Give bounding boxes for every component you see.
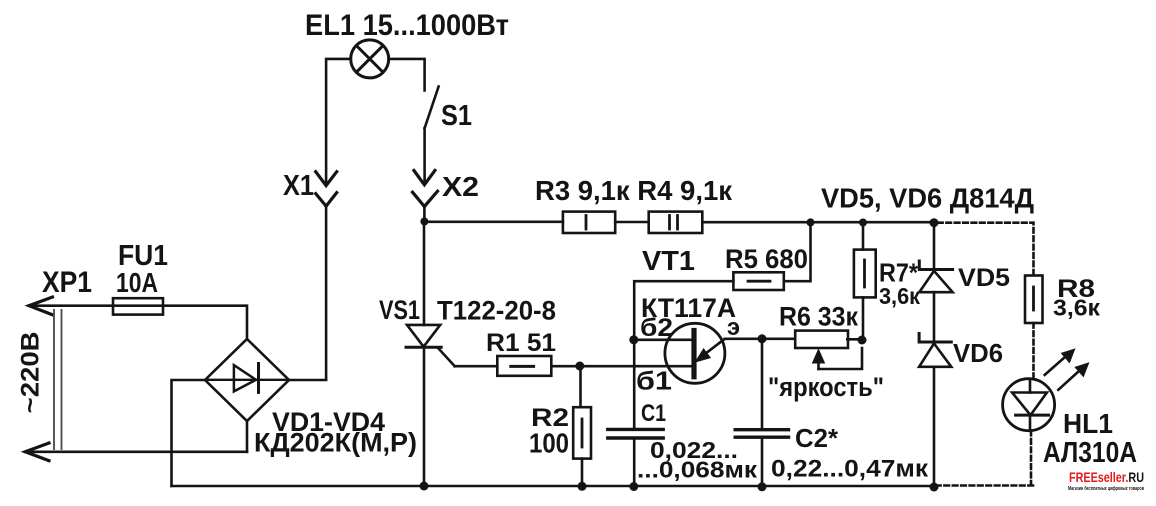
wire bridge minus (172, 380, 206, 486)
svg-text:3,6к: 3,6к (879, 283, 920, 309)
svg-text:3,6к: 3,6к (1053, 295, 1101, 321)
svg-text:HL1: HL1 (1063, 408, 1113, 439)
svg-text:АЛ310А: АЛ310А (1043, 437, 1137, 469)
svg-text:VD5, VD6 Д814Д: VD5, VD6 Д814Д (821, 183, 1034, 214)
wire emitter (725, 337, 795, 340)
svg-text:FREEseller.RU: FREEseller.RU (1069, 469, 1144, 485)
svg-text:КД202К(М,Р): КД202К(М,Р) (254, 428, 417, 458)
svg-text:VD6: VD6 (953, 338, 1003, 368)
svg-text:VD5: VD5 (958, 264, 1010, 292)
mains cable lines (54, 310, 62, 449)
junction R6 R7 (858, 336, 867, 345)
potentiometer wiper R6 (813, 348, 863, 369)
zener VD6 (919, 334, 951, 367)
connector X1 (316, 172, 337, 206)
wire b2 lead (634, 338, 694, 341)
svg-text:C2*: C2* (795, 423, 839, 453)
svg-text:R5 680: R5 680 (725, 244, 808, 274)
connector X2 (413, 171, 438, 207)
LED arrow 2 (1058, 363, 1088, 390)
svg-text:б2: б2 (640, 314, 673, 342)
wire VD5 to VD6 (933, 292, 936, 342)
LED HL1 (1003, 379, 1055, 431)
lamp EL1 (351, 40, 389, 78)
svg-text:VT1: VT1 (642, 245, 695, 276)
switch S1 (389, 59, 439, 183)
wire bridge plus (289, 379, 326, 382)
wire dashed R8 to LED (1032, 323, 1035, 377)
bridge rectifier VD1-VD4 (205, 339, 289, 421)
resistor R7 (854, 223, 876, 341)
wire bottom rail (172, 485, 935, 488)
svg-text:R3 9,1к R4 9,1к: R3 9,1к R4 9,1к (535, 175, 733, 206)
junction rail R2 (578, 482, 587, 491)
svg-text:~220В: ~220В (17, 331, 45, 413)
svg-text:C1: C1 (641, 400, 666, 427)
svg-text:б1: б1 (636, 366, 672, 396)
wire X2 stem (423, 207, 426, 223)
fuse FU1 (113, 298, 163, 314)
wire X1 stem to bridge plus (325, 206, 328, 379)
junction rail C2 (758, 482, 767, 491)
wire dashed LED to rail (937, 431, 1033, 486)
junction rail VS1 (420, 482, 429, 491)
LED arrow 1 (1045, 349, 1075, 375)
wire dashed bus to R8 (938, 223, 1034, 276)
svg-text:"яркость": "яркость" (768, 372, 884, 402)
svg-text:ХР1: ХР1 (42, 266, 92, 299)
transistor VT1 (665, 323, 725, 383)
svg-text:X2: X2 (442, 171, 479, 202)
junction b2 (629, 335, 638, 344)
svg-text:10А: 10А (116, 267, 158, 298)
junction R1 R2 (575, 362, 584, 371)
resistor R6 (795, 331, 862, 348)
svg-text:0,22...0,47мк: 0,22...0,47мк (771, 456, 929, 483)
svg-text:X1: X1 (283, 170, 314, 202)
connector XP1 bottom arrow (25, 443, 247, 461)
junction bus R7 (859, 219, 867, 227)
resistor R5 (733, 272, 783, 290)
svg-text:...0,068мк: ...0,068мк (637, 457, 758, 483)
junction C2 tap (758, 334, 767, 343)
junction rail C1 (629, 482, 638, 491)
wire R5 left to b2 (634, 281, 733, 340)
junction bus VD5 (930, 218, 939, 227)
svg-text:R1 51: R1 51 (486, 329, 556, 357)
junction rail VD6 (930, 483, 939, 492)
connector XP1 top arrow (29, 297, 113, 315)
resistor R4 (649, 212, 703, 233)
wire R1 to junction (551, 365, 580, 368)
junction bus R5 (807, 218, 815, 226)
svg-text:S1: S1 (441, 100, 472, 132)
svg-text:R6 33к: R6 33к (779, 302, 858, 332)
svg-text:EL1 15...1000Вт: EL1 15...1000Вт (305, 9, 509, 42)
wire b1 lead (580, 365, 694, 368)
resistor R3 (563, 212, 615, 233)
junction X2 bus (420, 218, 428, 226)
wire bridge bottom (246, 421, 249, 452)
svg-text:VS1: VS1 (379, 295, 420, 325)
wire VS1 gate (455, 365, 498, 368)
wire VD6 cathode to rail (933, 367, 936, 487)
wire VS1 anode (423, 222, 426, 326)
zener VD5 (919, 223, 952, 293)
svg-text:Магазин бесплатных цифровых то: Магазин бесплатных цифровых товаров (1068, 485, 1144, 492)
resistor R1 (497, 356, 551, 376)
capacitor C1 (608, 340, 663, 487)
wire VS1 cathode (423, 347, 426, 486)
thyristor VS1 (406, 325, 455, 366)
wire lamp left to X1 (326, 59, 351, 183)
svg-text:100: 100 (529, 428, 569, 459)
capacitor C2 (735, 339, 788, 487)
resistor R8 (1025, 276, 1043, 324)
wire main bus (424, 221, 934, 224)
wire fuse to bridge top (163, 306, 247, 339)
svg-text:Т122-20-8: Т122-20-8 (437, 296, 556, 326)
svg-text:э: э (727, 314, 740, 341)
resistor R2 (573, 366, 591, 487)
wire R5 branch right (784, 222, 811, 281)
